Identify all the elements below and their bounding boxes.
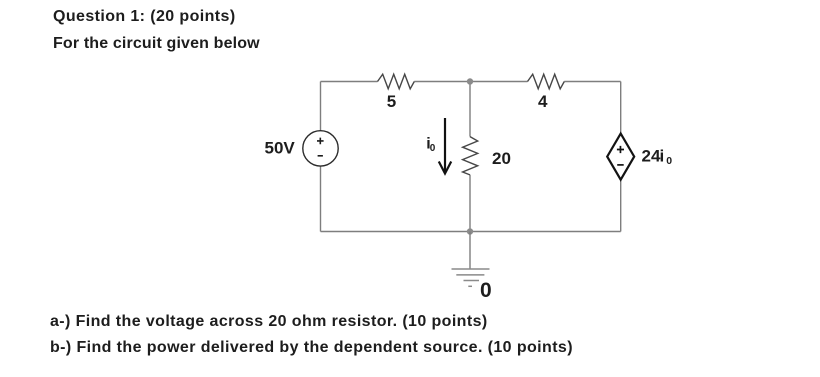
label 5 [387,92,396,111]
wire bottom [321,231,621,233]
svg-text:0: 0 [666,155,672,167]
current arrow i0 [439,118,451,174]
wire top left segment [321,81,378,83]
node B junction dot [467,228,473,234]
svg-text:20: 20 [492,149,511,168]
ground symbol [452,269,490,286]
resistor 5 ohm [378,74,415,89]
label 0 (ground net) [480,279,492,302]
wire left bottom segment [320,166,322,231]
resistor 20 ohm [463,137,478,175]
svg-text:4: 4 [538,92,548,111]
svg-text:i: i [660,147,665,166]
label 50V [265,139,296,158]
ground stem wire [469,232,471,269]
wire right top segment [620,82,622,134]
svg-text:0: 0 [480,279,492,302]
title line 2 [53,35,260,53]
wire top middle segment [414,81,527,83]
wire right bottom segment [620,180,622,232]
svg-text:5: 5 [387,92,396,111]
wire top right segment [564,81,620,83]
label 4 [538,92,548,111]
question a [50,313,488,331]
wire middle branch top segment [469,82,471,137]
wire left top segment [320,82,322,131]
voltage source V1 50V [303,131,338,166]
node A junction dot [467,78,473,84]
svg-text:24: 24 [642,147,661,166]
dependent source 24i0 (diamond) [607,134,634,180]
question b [50,339,573,357]
label 24i0 [642,147,673,168]
svg-text:50V: 50V [265,139,296,158]
wire middle branch bottom segment [469,175,471,232]
label i0 [426,136,436,155]
title line 1 [53,8,236,26]
svg-text:0: 0 [430,143,436,154]
label 20 [492,149,511,168]
resistor 4 ohm [528,74,565,89]
